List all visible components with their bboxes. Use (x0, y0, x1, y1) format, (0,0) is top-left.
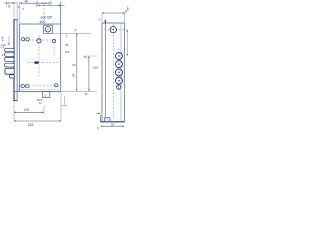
side top hole centerline v (112, 24, 114, 118)
svg-text:n.4: n.4 (1, 46, 5, 50)
svg-text:60: 60 (72, 63, 76, 67)
hub centerline dashed (28, 39, 57, 41)
svg-text:ø18: ø18 (0, 36, 4, 42)
dim C line (38, 5, 65, 7)
dim C arrows (38, 5, 61, 7)
side top dim arrows (102, 12, 124, 14)
cylinder center dot (47, 29, 48, 30)
keyhole (34, 61, 39, 64)
mid dim V1 (76, 33, 78, 91)
faceplate ext lines up (13, 2, 15, 20)
bolt foot step (10, 75, 15, 78)
side top hole dot (113, 29, 114, 30)
left small dim arrow (8, 43, 10, 45)
vertical centerline x38.5 dashed (38, 35, 40, 78)
pin1 ext dashed (84, 55, 97, 57)
dim A line (4, 2, 16, 4)
side view top edge (102, 22, 125, 24)
bolt pin bar 4 (5, 63, 15, 67)
bottom-left notch (105, 118, 110, 122)
V2 arrows (88, 56, 90, 91)
svg-text:ø18: ø18 (93, 66, 98, 70)
screw hole b (26, 38, 29, 41)
svg-text:ø30 M5: ø30 M5 (41, 16, 53, 20)
side bottom dim arrows (100, 125, 124, 127)
side view left edge (101, 23, 103, 122)
pin circle 4 (116, 77, 123, 84)
side view bottom edge (100, 121, 124, 123)
bottom screw hole b (26, 84, 30, 88)
svg-text:115: 115 (24, 108, 30, 112)
bottom screw hole a (21, 84, 25, 88)
side top dim ext a (101, 13, 103, 23)
svg-text:8: 8 (8, 4, 10, 8)
left leader near bottom (96, 113, 100, 115)
side view top flange mark (104, 20, 106, 23)
screw hole a (22, 38, 25, 41)
bolt pin bar 3 (5, 58, 15, 62)
ext case right down (60, 92, 62, 122)
pin circle 3 (116, 69, 123, 76)
bolt pin bar 2 (5, 53, 15, 57)
side view right edge (124, 23, 126, 122)
far right dim (126, 30, 128, 56)
right small hole (53, 39, 56, 42)
mid link line y33 (44, 32, 92, 34)
vertical centerline x44 dashed (43, 3, 45, 25)
side bottom-left flange line (99, 115, 101, 122)
dim A arrows (6, 2, 14, 4)
pins centerline dashed (118, 48, 120, 90)
dim A ext line (5, 2, 7, 7)
case bottom extension right (61, 90, 97, 92)
case bottom edge (14, 90, 61, 92)
side top dim line (102, 12, 124, 14)
dim B arrows (20, 2, 46, 4)
V1 arrows (76, 33, 78, 91)
left small dim line (8, 36, 10, 45)
cylinder box (44, 25, 53, 33)
side inner line 1 (105, 23, 107, 122)
side top dim ext b (123, 13, 125, 23)
dim C ext (37, 1, 39, 6)
bottom dim2 arrows (14, 120, 61, 122)
bottom holes centerline dashed (18, 85, 60, 87)
small hole below pins (116, 85, 120, 89)
case left edge (19, 24, 21, 91)
ext faceplate down (13, 101, 15, 121)
svg-text:ø22: ø22 (40, 20, 46, 24)
dim B line (20, 2, 49, 4)
tab box below case (42, 92, 49, 98)
svg-text:2: 2 (127, 6, 129, 10)
side top leader (124, 9, 128, 13)
side top hole (110, 27, 116, 33)
svg-text:58: 58 (72, 73, 76, 77)
side inner line 3 (120, 23, 122, 122)
cylinder circle (45, 27, 50, 32)
small vertical dashes below right hub hole (53, 43, 55, 56)
side top hole centerline h (104, 29, 129, 31)
faceplate front edge (thick) (13, 20, 15, 101)
far right dim arrows (126, 30, 128, 56)
bottom dim1 line (14, 111, 44, 113)
mid dim V2 (88, 56, 90, 91)
keyhole centerline dashed (28, 62, 60, 64)
svg-text:40: 40 (25, 0, 29, 4)
bottom screw hole c (55, 84, 58, 87)
faceplate inner edge (16, 20, 18, 101)
follower hole (37, 39, 41, 43)
svg-text:25: 25 (111, 122, 115, 126)
svg-text:25: 25 (48, 1, 52, 5)
svg-text:163: 163 (28, 123, 34, 127)
mid small tick (65, 33, 67, 37)
svg-text:15: 15 (84, 92, 88, 96)
pin circle 2 (116, 61, 123, 68)
svg-text:34: 34 (83, 55, 87, 59)
svg-text:28: 28 (65, 43, 69, 47)
bottom dim2 line (14, 120, 61, 122)
case top edge (20, 23, 61, 25)
mark tick (62, 105, 68, 107)
dim B tick (35, 2, 37, 7)
svg-text:8.5: 8.5 (65, 50, 70, 54)
bottom dim1 arrows (14, 112, 44, 114)
faceplate top cap (13, 19, 17, 21)
bolt pin bar 1 (5, 48, 15, 51)
side bottom dim line (100, 125, 124, 127)
faceplate bottom cap (13, 100, 17, 102)
left leader arrow (98, 113, 100, 115)
pin circle 1 (116, 53, 123, 60)
case right edge (60, 2, 62, 91)
mark below case right (63, 96, 65, 105)
main bolt block (5, 68, 14, 74)
guide plate dashed line (18, 89, 59, 91)
dim B ext case left (19, 2, 21, 24)
